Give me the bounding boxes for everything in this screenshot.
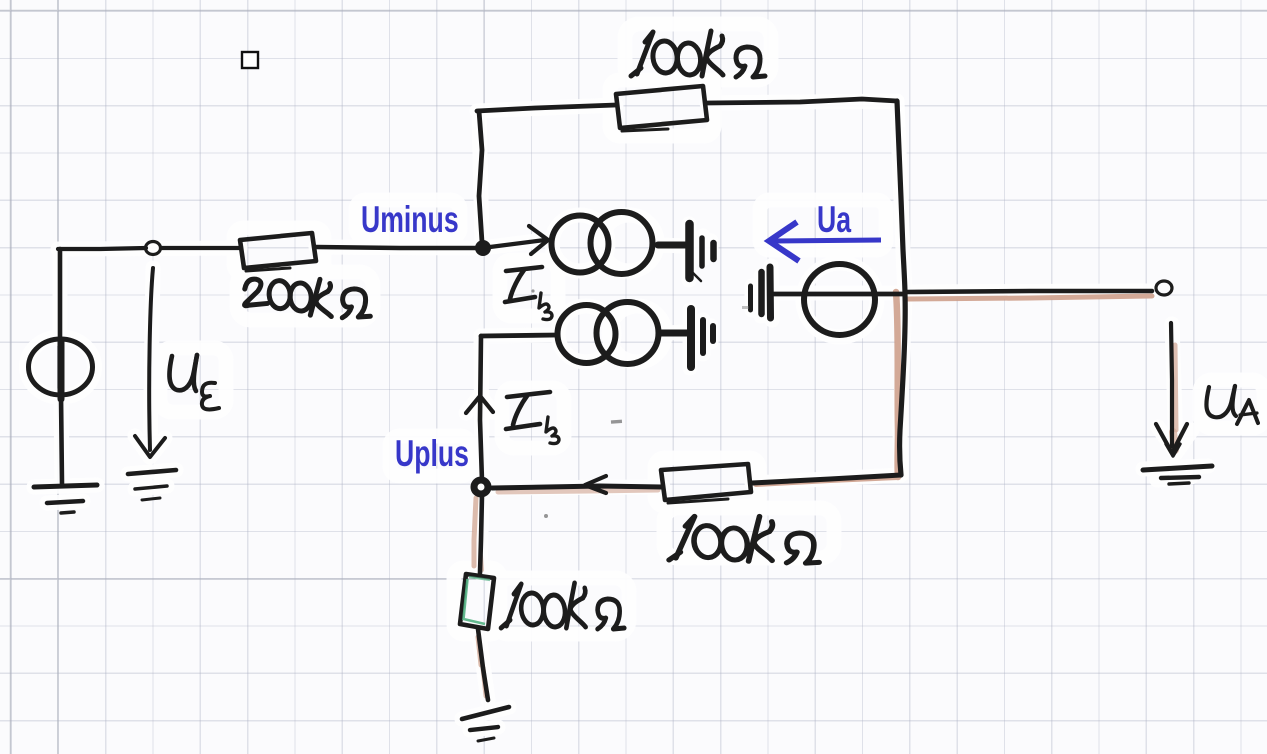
svg-text:Uplus: Uplus (395, 433, 469, 474)
svg-text:Ua: Ua (817, 199, 852, 240)
svg-text:Uminus: Uminus (361, 199, 459, 240)
